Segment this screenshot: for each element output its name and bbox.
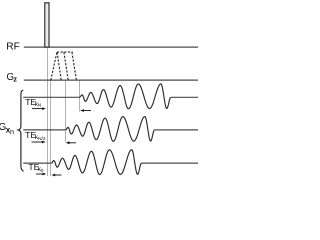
svg-text:N: N [38,103,42,109]
svg-text:z: z [13,75,17,84]
svg-text:n: n [10,127,14,136]
svg-text:N/2: N/2 [38,136,46,142]
svg-text:0: 0 [41,168,44,174]
svg-text:RF: RF [6,41,20,52]
